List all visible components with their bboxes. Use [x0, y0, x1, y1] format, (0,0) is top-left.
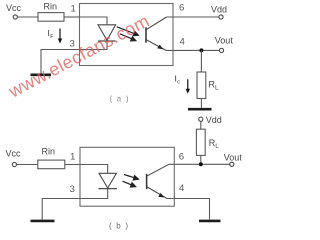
svg-text:Vcc: Vcc	[6, 149, 22, 159]
node Vdd (b)	[199, 115, 222, 125]
wire junction to RL (a)	[200, 50, 202, 72]
wire Vcc to Rin (a)	[17, 16, 38, 18]
ground (b) right	[199, 220, 221, 223]
current arrow IF (a)	[48, 28, 63, 44]
LED D1 (a)	[98, 25, 116, 41]
ground (a) right	[188, 108, 212, 111]
svg-text:4: 4	[179, 183, 185, 194]
svg-text:Rin: Rin	[44, 2, 58, 12]
wire Vcc to Rin (b)	[17, 164, 38, 166]
svg-text:6: 6	[179, 3, 184, 14]
phototransistor Q2 (b)	[147, 164, 169, 198]
svg-text:Rin: Rin	[42, 147, 56, 157]
ground (a) left	[31, 74, 52, 77]
node Vcc (b)	[6, 149, 22, 167]
node Vout (a)	[215, 36, 234, 53]
junction node (b)	[199, 162, 203, 166]
svg-text:1: 1	[71, 4, 76, 15]
optocoupler U1 box (a)	[80, 4, 174, 66]
svg-text:L: L	[215, 143, 219, 150]
junction node (a)	[199, 48, 203, 52]
wire pin 6 to Vout (b)	[169, 163, 230, 165]
wire Rin to pin 1 (b)	[65, 164, 80, 166]
resistor RL (b)	[196, 129, 219, 155]
node Vout (b)	[224, 153, 243, 167]
wire RL to pin 6 node (b)	[200, 155, 202, 164]
optocoupler U2 box (b)	[80, 147, 174, 206]
svg-text:( a ): ( a )	[110, 95, 130, 104]
svg-text:Vout: Vout	[215, 36, 234, 46]
svg-text:c: c	[177, 80, 180, 86]
wire RL to ground (a)	[200, 99, 202, 108]
svg-text:1: 1	[70, 152, 75, 163]
wire LED cathode to pin 3 (a)	[80, 41, 108, 50]
node Vcc (a)	[6, 3, 22, 19]
svg-text:L: L	[215, 85, 219, 92]
svg-text:4: 4	[180, 37, 186, 48]
light arrows (b)	[123, 175, 139, 188]
resistor RL (a)	[197, 72, 219, 99]
resistor Rin (a)	[38, 2, 64, 22]
resistor Rin (b)	[38, 147, 65, 169]
svg-text:( b ): ( b )	[109, 222, 129, 231]
svg-text:Vdd: Vdd	[211, 5, 227, 15]
wire pin 1 to LED anode (a)	[80, 17, 108, 25]
wire pin 4 to Vout (a)	[166, 49, 219, 51]
light arrows (a)	[117, 27, 139, 41]
wire pin 4 to ground (b)	[167, 199, 210, 220]
svg-text:3: 3	[70, 184, 75, 195]
wire pin 6 to Vdd (a)	[167, 16, 219, 18]
wire pin 1 to LED anode (b)	[80, 165, 108, 174]
svg-text:Vdd: Vdd	[206, 115, 222, 125]
svg-text:6: 6	[179, 152, 184, 163]
wire pin 3 to ground (b)	[42, 199, 80, 220]
wire pin 3 to ground (a)	[41, 50, 80, 74]
svg-text:Vcc: Vcc	[6, 3, 22, 13]
phototransistor Q1 (a)	[146, 17, 167, 50]
svg-text:Vout: Vout	[224, 153, 243, 163]
LED D2 (b)	[99, 173, 117, 188]
wire Rin to pin 1 (a)	[64, 16, 80, 18]
wire LED cathode to pin 3 (b)	[80, 189, 108, 199]
ground (b) left	[31, 220, 55, 223]
node Vdd (a)	[211, 5, 227, 20]
wire Vdd to RL (b)	[200, 121, 202, 129]
current arrow Ic (a)	[175, 74, 191, 94]
